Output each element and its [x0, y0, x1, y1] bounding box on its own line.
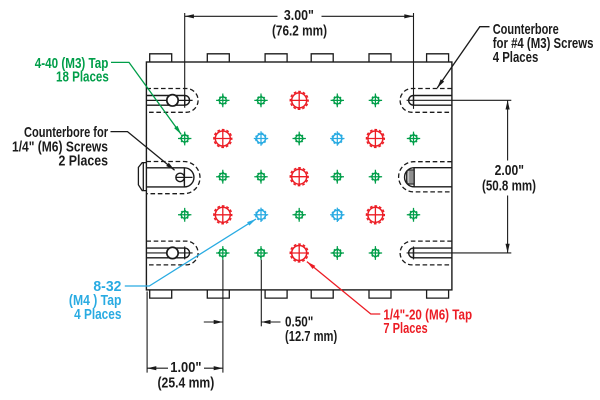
- slot middle-left screw circle: [176, 173, 185, 182]
- svg-text:4 Places: 4 Places: [74, 307, 121, 323]
- hole green r3c6: [369, 170, 382, 184]
- dimension 3.00in dimension line: [185, 15, 414, 17]
- svg-text:3.00": 3.00": [284, 8, 314, 24]
- hole green r1c2: [216, 94, 229, 108]
- hole green r4c7: [407, 208, 420, 222]
- slot top-right dashed counterbore outline: [400, 89, 452, 113]
- hole blue r2c5: [330, 131, 344, 145]
- slot middle-left boss on plate edge: [138, 163, 146, 191]
- hole green r1c5: [331, 94, 344, 108]
- hole green r3c3: [254, 170, 267, 184]
- hole green r3c2: [216, 170, 229, 184]
- slot bottom-left dashed counterbore outline: [146, 241, 198, 265]
- label 4-40 tap arrowhead: [174, 126, 183, 136]
- dimension 1.00in dimension line: [147, 367, 223, 369]
- slot middle-left solid slot: [146, 168, 194, 187]
- label counterbore 1/4 arrowhead: [166, 163, 176, 172]
- dimension 2.00in dimension line: [507, 100, 509, 253]
- dimension 2.00in bottom arrowhead: [506, 244, 510, 253]
- hole green r5c5: [331, 246, 344, 260]
- slot middle-right dashed counterbore outline: [399, 162, 452, 192]
- hole green r5c6: [369, 246, 382, 260]
- dimension 2.00in extension lines: [407, 100, 512, 253]
- slot middle-right solid slot: [405, 168, 452, 187]
- top edge tabs: [150, 54, 449, 62]
- plate outline: [146, 62, 452, 290]
- hole red r2c6: [366, 129, 385, 148]
- hole blue r2c3: [254, 131, 268, 145]
- dimension 2.00in top arrowhead: [506, 100, 510, 109]
- label counterbore #4 leader: [437, 27, 489, 88]
- hole red r4c2: [214, 206, 233, 225]
- dimension 0.50in extension line: [260, 260, 262, 327]
- hole red r1c4: [290, 91, 309, 110]
- dimension 3.00in right arrowhead: [404, 14, 413, 18]
- svg-text:(12.7 mm): (12.7 mm): [285, 329, 337, 345]
- hole blue r4c3: [254, 208, 268, 222]
- dimension 3.00in left arrowhead: [185, 14, 194, 18]
- svg-text:(25.4 mm): (25.4 mm): [158, 375, 215, 391]
- label counterbore 1/4 leader: [111, 132, 175, 171]
- svg-text:2.00": 2.00": [495, 163, 524, 179]
- hole red r2c2: [214, 129, 233, 148]
- hole red r5c4: [290, 244, 309, 263]
- slot bottom-left screw head circle: [167, 247, 178, 258]
- hole green r4c1: [178, 208, 191, 222]
- svg-text:(76.2 mm): (76.2 mm): [272, 24, 327, 40]
- svg-text:7 Places: 7 Places: [383, 321, 427, 337]
- hole green r2c7: [407, 132, 420, 146]
- dimension 0.50in right segment: [261, 321, 280, 323]
- label 1/4-20 tap leader: [307, 262, 380, 314]
- slot middle-left dashed counterbore outline: [146, 162, 200, 194]
- svg-text:1.00": 1.00": [170, 360, 201, 376]
- hole green r4c4: [293, 208, 306, 222]
- slot top-left solid slot: [146, 96, 189, 106]
- slot top-right solid slot: [409, 96, 452, 106]
- dimension 1.00in right arrowhead: [214, 366, 223, 370]
- slot bottom-right dashed counterbore outline: [400, 241, 452, 265]
- hole red r4c6: [366, 206, 385, 225]
- svg-text:2 Places: 2 Places: [59, 154, 109, 170]
- slot bottom-left center line and cross: [146, 247, 192, 260]
- hole green r3c5: [331, 170, 344, 184]
- dimension 1.00in left arrowhead: [147, 366, 156, 370]
- slot bottom-left solid slot: [146, 248, 189, 258]
- label 8-32 tap leader: [125, 219, 256, 286]
- label counterbore #4 arrowhead: [435, 79, 444, 89]
- hole green r2c4: [293, 132, 306, 146]
- slot top-left center line: [146, 99, 192, 101]
- label 1/4-20 tap arrowhead: [306, 260, 316, 269]
- dimension 1.00in extension lines: [147, 260, 223, 373]
- hole green r1c6: [369, 94, 382, 108]
- dimension 3.00in extension lines: [185, 13, 414, 109]
- hole green r5c2: [216, 246, 229, 260]
- svg-text:4 Places: 4 Places: [493, 50, 539, 66]
- dimension 0.50in right-pointing arrowhead: [214, 320, 223, 324]
- hole blue r4c5: [330, 208, 344, 222]
- slot bottom-right solid slot: [409, 248, 452, 258]
- svg-text:(50.8 mm): (50.8 mm): [482, 179, 536, 195]
- slot top-left screw head circle: [167, 95, 178, 106]
- slot bottom-right cross vertical: [413, 247, 415, 260]
- hole green r1c3: [254, 94, 267, 108]
- slot middle-right screw head ridge: [407, 171, 409, 183]
- hole green r2c1: [178, 132, 191, 146]
- hole red r3c4: [290, 167, 309, 186]
- hole green r5c3: [254, 246, 267, 260]
- bottom edge tabs: [150, 290, 449, 298]
- dimension 0.50in left-pointing arrowhead: [261, 320, 270, 324]
- svg-text:18 Places: 18 Places: [56, 69, 109, 85]
- label 4-40 tap leader: [111, 62, 181, 134]
- dimension 0.50in left segment: [204, 321, 223, 323]
- slot middle-left cross: [176, 172, 193, 184]
- slot top-left dashed counterbore outline: [146, 89, 198, 113]
- label 8-32 tap arrowhead: [247, 217, 257, 225]
- slot middle-right gray screw head: [407, 170, 415, 184]
